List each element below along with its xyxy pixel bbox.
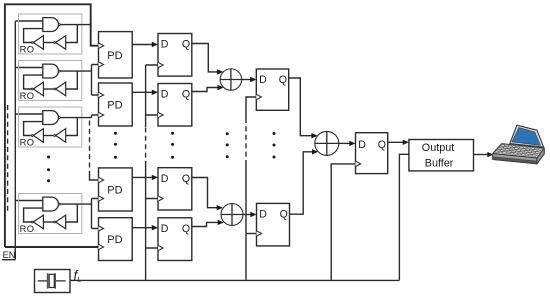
svg-text:Q: Q: [182, 223, 190, 235]
svg-text:D: D: [259, 209, 267, 221]
svg-text:RO: RO: [20, 91, 35, 101]
svg-text:RO: RO: [20, 138, 35, 148]
svg-text:D: D: [161, 39, 169, 51]
svg-text:PD: PD: [107, 50, 122, 62]
svg-text:EN: EN: [3, 250, 16, 260]
svg-text:PD: PD: [107, 234, 122, 246]
svg-text:Q: Q: [182, 173, 190, 185]
svg-text:D: D: [161, 173, 169, 185]
svg-text:PD: PD: [107, 100, 122, 112]
svg-text:D: D: [259, 74, 267, 86]
svg-text:D: D: [161, 89, 169, 101]
svg-text:Output: Output: [422, 142, 454, 154]
svg-text:Q: Q: [182, 39, 190, 51]
svg-text:Q: Q: [182, 89, 190, 101]
svg-text:D: D: [358, 139, 366, 151]
svg-text:RO: RO: [20, 45, 35, 55]
svg-text:fL: fL: [74, 268, 82, 284]
svg-text:Q: Q: [279, 74, 287, 86]
svg-text:PD: PD: [107, 184, 122, 196]
svg-text:Buffer: Buffer: [425, 157, 454, 169]
svg-text:Q: Q: [378, 139, 386, 151]
svg-text:D: D: [161, 223, 169, 235]
svg-text:Q: Q: [280, 209, 288, 221]
svg-text:RO: RO: [20, 224, 35, 234]
